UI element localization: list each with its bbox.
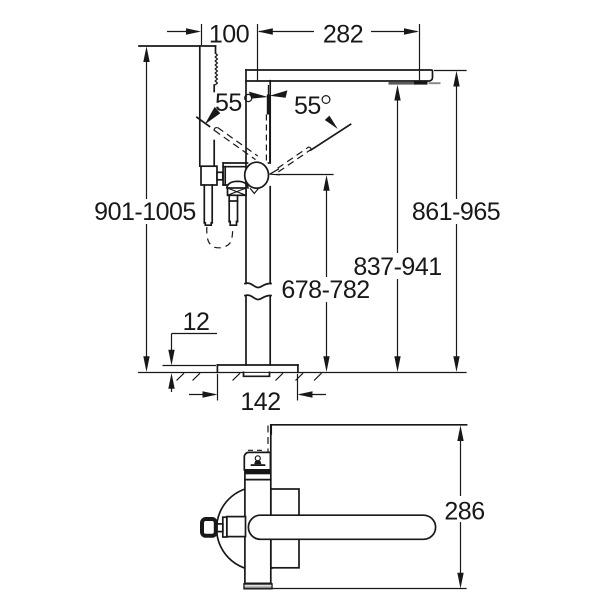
plan: base plate circle	[217, 487, 301, 571]
left 55 degree lever line (dashed) with arrowhead	[197, 107, 258, 193]
riser column right edge	[269, 81, 271, 365]
valve body	[223, 163, 270, 185]
cartridge circle (handle pivot)	[245, 162, 269, 188]
plan: lever knob (thick outline)	[202, 519, 216, 536]
plan: lever block	[227, 517, 246, 537]
under-floor fitting box	[244, 372, 270, 376]
plan: diverter knob icon	[251, 456, 266, 466]
dimension 282	[258, 21, 420, 82]
holder connector	[217, 172, 223, 180]
spout bar	[246, 70, 433, 81]
hand shower bracket top line	[139, 45, 216, 47]
plan: top connection box	[244, 450, 270, 470]
column height-adjust break symbol	[245, 283, 271, 299]
shower hose dashed loop	[207, 227, 233, 248]
aerator dark band	[389, 81, 441, 85]
hand shower holder block	[201, 166, 217, 185]
svg-text:678-782: 678-782	[281, 276, 369, 304]
plan: seam line	[245, 479, 271, 481]
svg-text:282: 282	[323, 21, 363, 49]
diverter dome	[227, 181, 248, 188]
diverter box with cross	[228, 188, 247, 195]
dimension 861-965	[412, 71, 500, 373]
dashed hose axis	[267, 426, 269, 458]
plan: dark seam band	[245, 470, 271, 474]
dimension 100	[167, 21, 249, 49]
plan: spout (rounded bar)	[248, 515, 435, 539]
lever in vertical position	[266, 85, 270, 162]
floor line with hatching	[138, 373, 467, 381]
plan: lever neck	[217, 524, 223, 532]
hand shower wand	[200, 46, 218, 166]
base plate	[217, 365, 298, 372]
plan: lever flange	[223, 517, 227, 537]
dimension 286	[272, 425, 485, 588]
angle label 55 left	[215, 89, 252, 117]
dimension 12	[163, 308, 218, 392]
plan: concealed body square	[271, 489, 299, 568]
svg-text:901-1005: 901-1005	[94, 198, 196, 226]
svg-text:12: 12	[183, 308, 210, 336]
svg-text:142: 142	[240, 388, 280, 416]
svg-text:55: 55	[294, 92, 321, 120]
svg-text:100: 100	[209, 21, 249, 49]
right 55 degree lever line (dashed) with arrowhead	[270, 116, 351, 175]
dimension 678-782	[276, 175, 370, 373]
plan: bottom cap	[244, 584, 272, 589]
diverter tube	[229, 195, 237, 225]
svg-text:861-965: 861-965	[412, 198, 500, 226]
angle arrows at lever axis	[249, 90, 288, 98]
dimension 901-1005	[94, 46, 196, 372]
wall reference line	[271, 425, 466, 434]
hand shower lower wand	[204, 185, 212, 225]
riser column left edge	[245, 70, 247, 365]
plan: column body	[245, 425, 271, 584]
angle label 55 right	[294, 92, 330, 120]
dimension 837-941	[353, 85, 441, 372]
svg-text:286: 286	[444, 498, 484, 526]
dimension 142	[189, 374, 326, 416]
